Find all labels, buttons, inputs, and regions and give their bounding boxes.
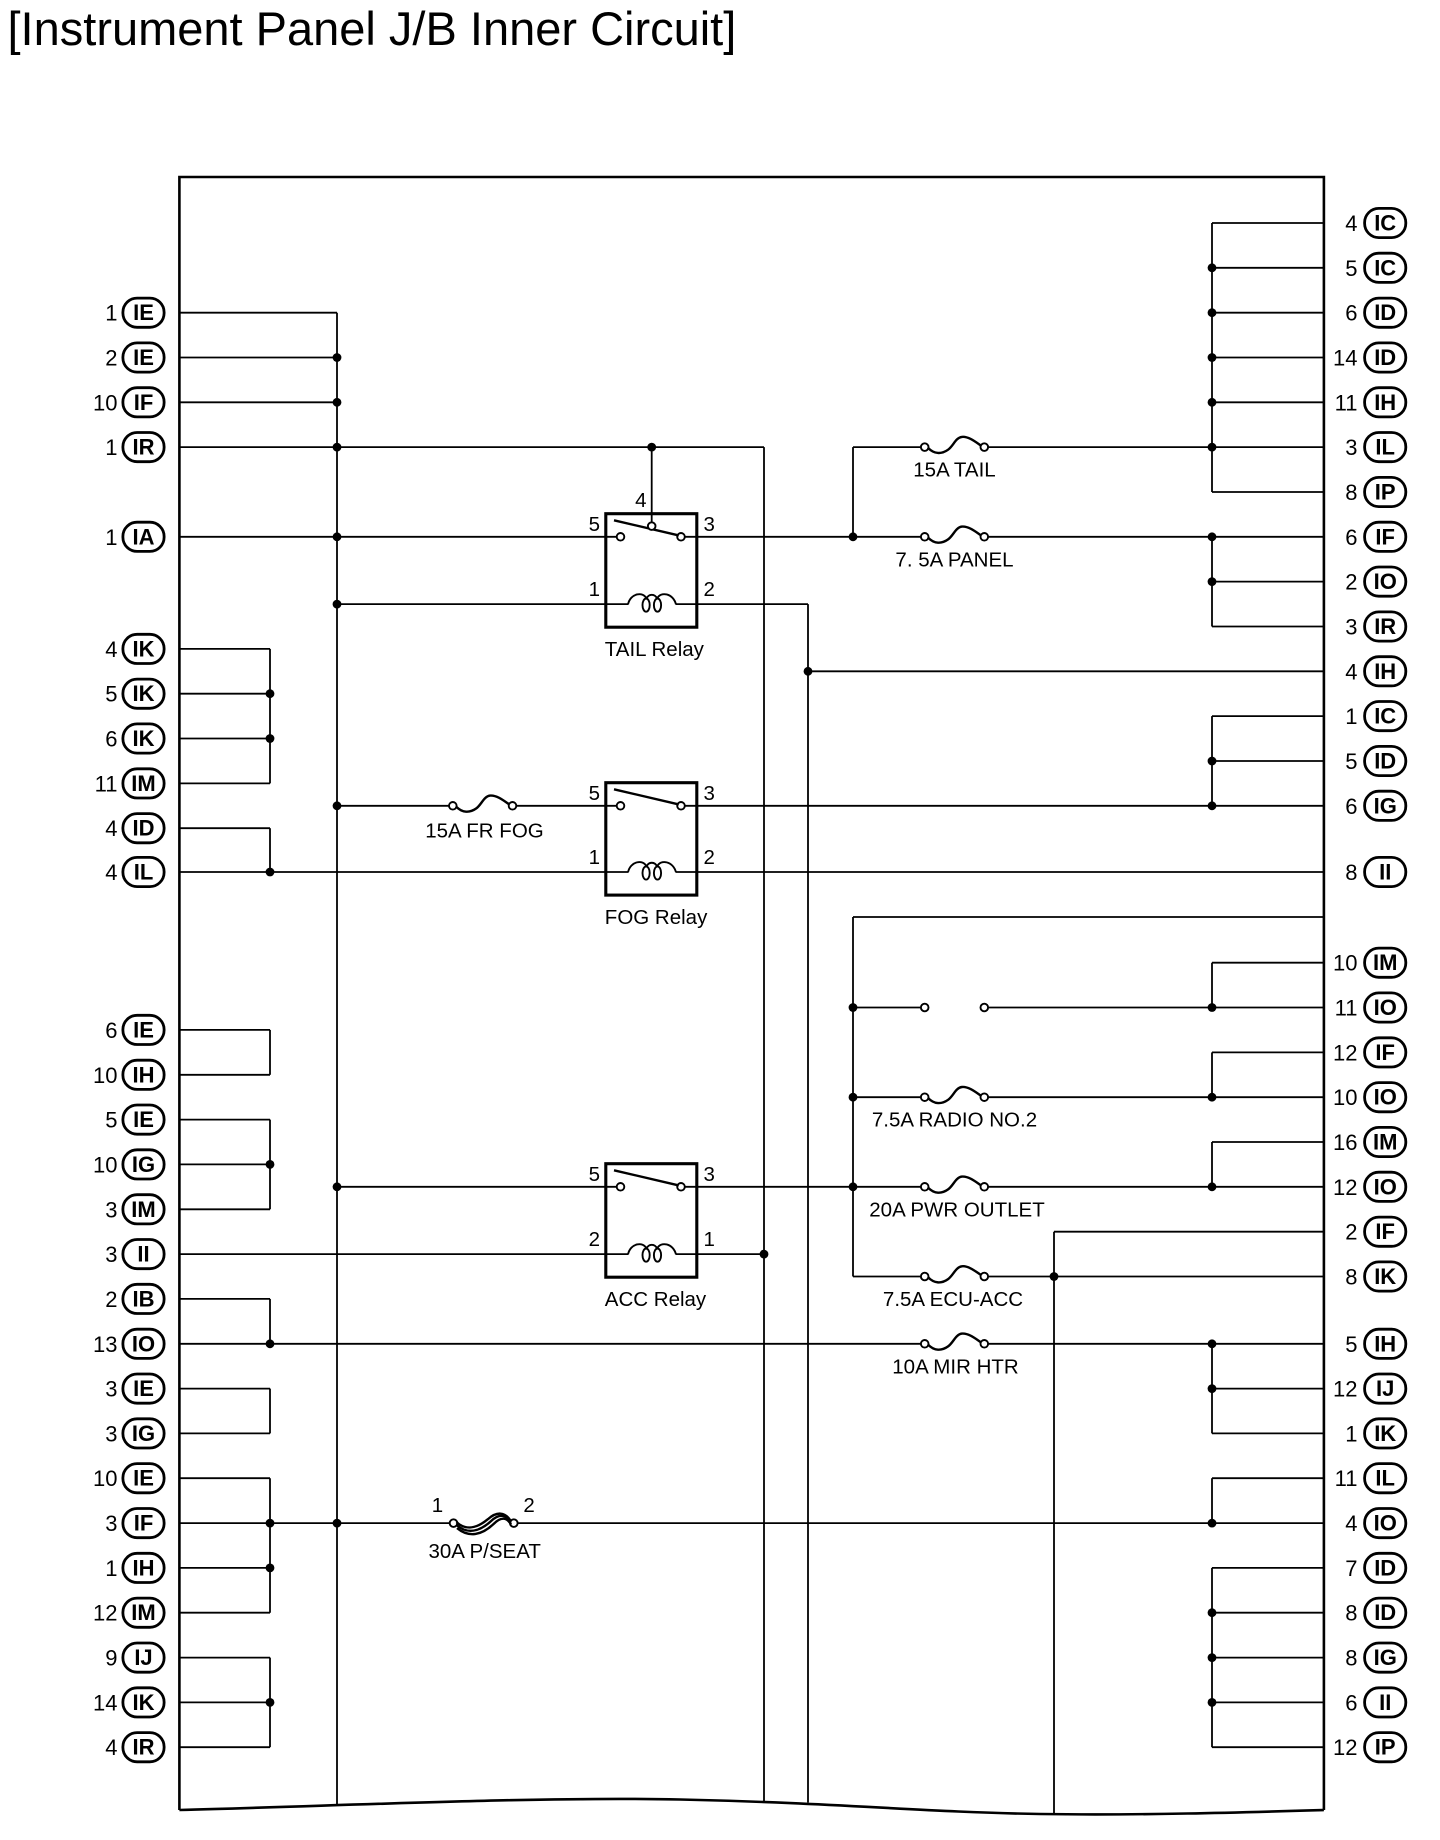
svg-text:2: 2 <box>1345 1220 1357 1245</box>
junction x270 y1567.9 <box>266 1564 275 1573</box>
svg-text:3: 3 <box>1345 615 1357 640</box>
right pin 4 IH <box>1345 657 1406 686</box>
wire 14 ID stub <box>1212 357 1324 359</box>
wire FOG relay pin3 to 6 IG pin <box>685 805 1324 807</box>
left pin 3 IG <box>105 1419 164 1448</box>
svg-text:IH: IH <box>1374 390 1396 415</box>
left pin 3 II <box>105 1240 164 1269</box>
svg-text:1: 1 <box>1345 704 1357 729</box>
svg-text:14: 14 <box>93 1690 117 1715</box>
junction x1212 y1523.1 <box>1208 1519 1217 1528</box>
wire 10 IF row <box>179 401 337 403</box>
wire 8 ID stub <box>1212 1612 1324 1614</box>
wire 9 IJ stub <box>179 1657 270 1659</box>
relay ACC (K3) <box>589 1163 715 1311</box>
junction x1212 y581.6 <box>1208 577 1217 586</box>
wire 11 IH stub <box>1212 401 1324 403</box>
bus right 5IH-1IK <box>1211 1344 1213 1434</box>
svg-text:ID: ID <box>1374 300 1396 325</box>
wire 1 IC stub <box>1212 715 1324 717</box>
right pin 12 IF <box>1333 1038 1406 1067</box>
wire 4 ID stub <box>179 827 270 829</box>
svg-text:2: 2 <box>704 578 715 601</box>
svg-text:IC: IC <box>1374 704 1396 729</box>
wire 1 IR / TAIL relay pin4 feed row <box>179 446 764 448</box>
svg-text:4: 4 <box>1345 1511 1357 1536</box>
wire 3 IM stub <box>179 1208 270 1210</box>
diagram title <box>8 2 737 55</box>
svg-text:ID: ID <box>1374 1555 1396 1580</box>
svg-text:4: 4 <box>635 489 646 512</box>
right pin 7 ID <box>1345 1553 1406 1582</box>
svg-text:4: 4 <box>1345 211 1357 236</box>
left pin 1 IH <box>105 1553 164 1582</box>
wire 3 IG stub <box>179 1432 270 1434</box>
svg-text:3: 3 <box>1345 435 1357 460</box>
fuse 10A MIR HTR <box>892 1334 1018 1379</box>
left pin 10 IF <box>93 388 164 417</box>
junction x270 y872.0 <box>266 868 275 877</box>
svg-text:4: 4 <box>105 1735 117 1760</box>
svg-text:IA: IA <box>133 524 155 549</box>
right pin 6 IF <box>1345 522 1406 551</box>
svg-text:3: 3 <box>704 513 715 536</box>
junction x1212 y447.1 <box>1208 443 1217 452</box>
svg-text:IH: IH <box>133 1555 155 1580</box>
svg-text:IK: IK <box>133 636 155 661</box>
junction x1212 y536.8 <box>1208 532 1217 541</box>
svg-text:IE: IE <box>133 345 154 370</box>
svg-text:IF: IF <box>134 390 154 415</box>
svg-text:1: 1 <box>105 301 117 326</box>
wire FOG relay coil to 8 II pin <box>676 871 1324 873</box>
bus right 16IM-12IO <box>1211 1142 1213 1187</box>
svg-text:IG: IG <box>132 1421 155 1446</box>
svg-text:13: 13 <box>93 1332 117 1357</box>
right pin 12 IO <box>1333 1172 1406 1201</box>
svg-text:8: 8 <box>1345 1601 1357 1626</box>
left pin 5 IE <box>105 1105 164 1134</box>
svg-text:IG: IG <box>132 1152 155 1177</box>
svg-text:10: 10 <box>1333 951 1357 976</box>
wire 2 IE row <box>179 357 337 359</box>
right pin 11 IO <box>1335 993 1406 1022</box>
svg-text:3: 3 <box>704 782 715 805</box>
svg-text:II: II <box>1379 1690 1391 1715</box>
svg-text:1: 1 <box>105 525 117 550</box>
wire 1 IE row <box>179 312 337 314</box>
junction x337 y357.5 <box>333 353 342 362</box>
right pin 5 IH <box>1345 1329 1406 1358</box>
bus stub 2IB-13IO <box>269 1299 271 1344</box>
svg-text:8: 8 <box>1345 860 1357 885</box>
svg-text:20A PWR OUTLET: 20A PWR OUTLET <box>869 1198 1045 1221</box>
svg-text:11: 11 <box>1335 1466 1358 1491</box>
junction x337 y805.8 <box>333 801 342 810</box>
svg-text:IH: IH <box>1374 1331 1396 1356</box>
right pin 1 IC <box>1345 702 1406 731</box>
svg-text:IE: IE <box>133 1466 154 1491</box>
bus right 1IC-6IG <box>1211 716 1213 806</box>
junction x1054 y1276.5 <box>1050 1272 1059 1281</box>
svg-text:IK: IK <box>1374 1421 1396 1446</box>
svg-text:IH: IH <box>1374 659 1396 684</box>
svg-text:7. 5A PANEL: 7. 5A PANEL <box>895 548 1013 571</box>
svg-text:4: 4 <box>105 816 117 841</box>
svg-text:3: 3 <box>105 1377 117 1402</box>
svg-text:6: 6 <box>1345 1690 1357 1715</box>
wire 10A MIR HTR to 5 IH pin <box>988 1343 1324 1345</box>
junction x853 y1097.2 <box>849 1093 858 1102</box>
wire 14 IK stub <box>179 1701 270 1703</box>
bus stub 5IE-3IM <box>269 1120 271 1210</box>
right pin 8 II <box>1345 857 1406 886</box>
svg-text:IE: IE <box>133 300 154 325</box>
junction x1212 y1007.5 <box>1208 1003 1217 1012</box>
wire 1 IH stub <box>179 1567 270 1569</box>
right pin 8 IP <box>1345 477 1406 506</box>
junction x1212 y1657.6 <box>1208 1653 1217 1662</box>
junction x1212 y357.5 <box>1208 353 1217 362</box>
svg-text:IK: IK <box>133 681 155 706</box>
fuse 15A FR FOG <box>425 796 543 843</box>
junction x853 y1186.8 <box>849 1182 858 1191</box>
svg-text:ACC Relay: ACC Relay <box>605 1288 707 1311</box>
bus right 11IL-4IO <box>1211 1478 1213 1523</box>
svg-text:7: 7 <box>1345 1556 1357 1581</box>
right pin 6 ID <box>1345 298 1406 327</box>
svg-text:IF: IF <box>1375 1040 1395 1065</box>
svg-text:1: 1 <box>105 435 117 460</box>
svg-text:IO: IO <box>132 1331 155 1356</box>
svg-text:3: 3 <box>704 1163 715 1186</box>
wire 15A FR FOG to FOG relay pin5 <box>516 805 616 807</box>
junction x1212 y1702.4 <box>1208 1698 1217 1707</box>
wire TAIL relay coil pin2 out <box>676 603 808 605</box>
bus left main x337 <box>336 313 338 1806</box>
junction x1212 y761.0 <box>1208 757 1217 766</box>
svg-text:5: 5 <box>589 1163 600 1186</box>
svg-text:IM: IM <box>131 771 155 796</box>
wire 1 IK row <box>1212 1432 1324 1434</box>
svg-text:7.5A ECU-ACC: 7.5A ECU-ACC <box>883 1288 1023 1311</box>
svg-text:IO: IO <box>1374 1085 1397 1110</box>
bus vertical x1054 <box>1053 1232 1055 1814</box>
wire 4 IR stub <box>179 1746 270 1748</box>
wire TAIL relay coil pin1 feed <box>337 603 628 605</box>
bus stub 10IE-12IM <box>269 1478 271 1613</box>
wire 2 IB stub <box>179 1298 270 1300</box>
wire ACC relay pin5 feed <box>337 1186 617 1188</box>
junction x1212 y267.8 <box>1208 263 1217 272</box>
wire 15A TAIL to 3 IL pin <box>988 446 1324 448</box>
wire 10 IG stub <box>179 1163 270 1165</box>
svg-text:9: 9 <box>105 1646 117 1671</box>
bus right 6IF-3IR <box>1211 537 1213 627</box>
svg-text:2: 2 <box>589 1228 600 1251</box>
junction x1212 y402.3 <box>1208 398 1217 407</box>
right pin 10 IM <box>1333 948 1406 977</box>
svg-text:11: 11 <box>1335 390 1358 415</box>
right pin 3 IL <box>1345 433 1406 462</box>
junction x764 y1254.1 <box>760 1250 769 1259</box>
svg-text:IR: IR <box>133 435 155 460</box>
wire 2 IF row <box>1054 1231 1324 1233</box>
bus vertical x764 <box>763 447 765 1801</box>
svg-text:FOG Relay: FOG Relay <box>605 906 708 929</box>
svg-text:IJ: IJ <box>1376 1376 1394 1401</box>
bus stub 4IK-11IM <box>269 649 271 784</box>
wire 7.5A RADIO NO.2 feed <box>853 1096 921 1098</box>
wire 8 IP stub <box>1212 491 1324 493</box>
fuse 7.5A PANEL <box>895 527 1013 572</box>
wire 6 II stub <box>1212 1701 1324 1703</box>
wire 15A TAIL fuse riser <box>852 447 854 537</box>
left pin 10 IH <box>93 1060 164 1089</box>
junction x337 y402.3 <box>333 398 342 407</box>
svg-text:6: 6 <box>1345 301 1357 326</box>
svg-text:IC: IC <box>1374 255 1396 280</box>
wire 7.5A PANEL to 6 IF pin <box>988 536 1324 538</box>
left pin 6 IK <box>105 724 164 753</box>
junction x1212 y805.8 <box>1208 801 1217 810</box>
svg-text:1: 1 <box>1345 1421 1357 1446</box>
svg-text:IK: IK <box>1374 1264 1396 1289</box>
left pin 13 IO <box>93 1329 164 1358</box>
wire 7 ID stub <box>1212 1567 1324 1569</box>
svg-text:IB: IB <box>133 1286 155 1311</box>
wire 7.5A ECU-ACC to 8 IK pin <box>988 1276 1324 1278</box>
junction x853 y536.8 <box>849 532 858 541</box>
left pin 4 IK <box>105 634 164 663</box>
left pin 1 IR <box>105 433 164 462</box>
svg-text:IG: IG <box>1374 793 1397 818</box>
left pin 3 IF <box>105 1509 164 1538</box>
wire 11 IL row <box>1212 1477 1324 1479</box>
svg-text:12: 12 <box>93 1601 117 1626</box>
wire 20A PWR OUTLET to 12 IO pin <box>988 1186 1324 1188</box>
wire open fuse slot to 11 IO pin <box>988 1007 1324 1009</box>
svg-text:IR: IR <box>133 1735 155 1760</box>
left pin 3 IE <box>105 1374 164 1403</box>
svg-text:TAIL Relay: TAIL Relay <box>605 638 705 661</box>
junction x270 y738.5 <box>266 734 275 743</box>
left pin 4 IL <box>105 857 164 886</box>
wire 5 ID stub <box>1212 760 1324 762</box>
right pin 2 IF <box>1345 1217 1406 1246</box>
svg-text:ID: ID <box>1374 345 1396 370</box>
svg-text:1: 1 <box>589 846 600 869</box>
svg-text:2: 2 <box>523 1494 534 1517</box>
svg-text:2: 2 <box>704 846 715 869</box>
wire TAIL relay pin4 drop <box>651 447 653 522</box>
fusible link 30A P/SEAT <box>428 1494 541 1563</box>
svg-text:15A FR FOG: 15A FR FOG <box>425 819 543 842</box>
svg-text:IG: IG <box>1374 1645 1397 1670</box>
junction x337 y447.1 <box>333 443 342 452</box>
bus right 10IM-11IO <box>1211 963 1213 1008</box>
svg-text:IP: IP <box>1375 480 1396 505</box>
wire 10 IE stub <box>179 1477 270 1479</box>
left pin 4 ID <box>105 814 164 843</box>
svg-text:11: 11 <box>1335 996 1358 1021</box>
left pin 14 IK <box>93 1688 164 1717</box>
wire 1 IA to TAIL relay pin5 <box>179 536 616 538</box>
junction x337 y1523.1 <box>333 1519 342 1528</box>
right pin 4 IO <box>1345 1509 1406 1538</box>
wire 2 IO stub <box>1212 581 1324 583</box>
wire 3 II to ACC relay coil <box>179 1253 628 1255</box>
bus stub 6IE-10IH <box>269 1030 271 1075</box>
svg-text:4: 4 <box>105 637 117 662</box>
wire 30A P/SEAT to 4 IO pin <box>518 1522 1324 1524</box>
junction x808 y671.3 <box>804 667 813 676</box>
right pin 14 ID <box>1333 343 1406 372</box>
bus stub 4ID-4IL <box>269 828 271 872</box>
right pin 16 IM <box>1333 1127 1406 1156</box>
svg-text:10: 10 <box>1333 1085 1357 1110</box>
svg-text:II: II <box>137 1242 149 1267</box>
right pin 5 IC <box>1345 253 1406 282</box>
svg-text:5: 5 <box>1345 749 1357 774</box>
wire 5 IK stub <box>179 693 270 695</box>
svg-text:1: 1 <box>432 1494 443 1517</box>
junction x853 y1007.5 <box>849 1003 858 1012</box>
svg-text:2: 2 <box>105 1287 117 1312</box>
bus vertical x808 <box>807 604 809 1802</box>
wire 11 IM stub <box>179 782 270 784</box>
svg-text:ID: ID <box>1374 1600 1396 1625</box>
svg-text:3: 3 <box>105 1197 117 1222</box>
J/B box outline <box>179 177 1324 1814</box>
wire 16 IM row <box>1212 1141 1324 1143</box>
svg-text:10: 10 <box>93 1466 117 1491</box>
svg-text:12: 12 <box>1333 1377 1357 1402</box>
left pin 6 IE <box>105 1015 164 1044</box>
svg-text:IO: IO <box>1374 1174 1397 1199</box>
wire 15A FR FOG feed <box>337 805 449 807</box>
wire 3 IR stub <box>1212 626 1324 628</box>
relay TAIL (K1) <box>589 489 715 661</box>
wire 7.5A ECU-ACC feed <box>853 1276 921 1278</box>
svg-text:IM: IM <box>131 1197 155 1222</box>
svg-text:5: 5 <box>589 513 600 536</box>
svg-text:7.5A RADIO NO.2: 7.5A RADIO NO.2 <box>872 1109 1037 1132</box>
svg-text:IH: IH <box>133 1062 155 1087</box>
svg-text:IM: IM <box>1373 1130 1397 1155</box>
wire ACC relay coil to bus <box>676 1253 764 1255</box>
svg-text:IE: IE <box>133 1376 154 1401</box>
wire ACC section feed top <box>853 916 1324 918</box>
svg-text:3: 3 <box>105 1421 117 1446</box>
wire 4 IK stub <box>179 648 270 650</box>
svg-text:15A TAIL: 15A TAIL <box>913 459 995 482</box>
junction x270 y693.7 <box>266 689 275 698</box>
svg-text:IL: IL <box>134 860 154 885</box>
svg-text:IK: IK <box>133 726 155 751</box>
svg-text:IO: IO <box>1374 569 1397 594</box>
svg-text:5: 5 <box>589 782 600 805</box>
svg-text:2: 2 <box>105 346 117 371</box>
wire 12 IM stub <box>179 1612 270 1614</box>
svg-text:14: 14 <box>1333 346 1357 371</box>
svg-text:IP: IP <box>1375 1735 1396 1760</box>
svg-text:IF: IF <box>134 1511 154 1536</box>
wire 12 IP stub <box>1212 1746 1324 1748</box>
junction x337 y536.8 <box>333 532 342 541</box>
svg-text:II: II <box>1379 860 1391 885</box>
junction x337 y1186.8 <box>333 1182 342 1191</box>
left pin 2 IE <box>105 343 164 372</box>
right pin 12 IJ <box>1333 1374 1406 1403</box>
left pin 1 IE <box>105 298 164 327</box>
svg-text:5: 5 <box>1345 256 1357 281</box>
svg-text:10: 10 <box>93 1063 117 1088</box>
bus stub 9IJ-4IR <box>269 1658 271 1748</box>
right pin 6 IG <box>1345 791 1406 820</box>
bus right 7ID-12IP <box>1211 1568 1213 1747</box>
right pin 2 IO <box>1345 567 1406 596</box>
right pin 3 IR <box>1345 612 1406 641</box>
svg-text:4: 4 <box>1345 659 1357 684</box>
bus right 4IC-8IP <box>1211 223 1213 492</box>
wire 3 IF to 30A P/SEAT <box>179 1522 449 1524</box>
svg-text:5: 5 <box>1345 1332 1357 1357</box>
junction x1212 y312.7 <box>1208 308 1217 317</box>
svg-text:IM: IM <box>131 1600 155 1625</box>
wire 4 IL to FOG relay coil <box>179 871 628 873</box>
svg-text:1: 1 <box>589 578 600 601</box>
svg-text:8: 8 <box>1345 1265 1357 1290</box>
right pin 1 IK <box>1345 1419 1406 1448</box>
wire ACC relay pin3 to 20A PWR OUTLET <box>685 1186 921 1188</box>
left pin 1 IA <box>105 522 164 551</box>
junction x1212 y1388.6 <box>1208 1384 1217 1393</box>
right pin 6 II <box>1345 1688 1406 1717</box>
junction x1212 y1186.8 <box>1208 1182 1217 1191</box>
svg-text:4: 4 <box>105 860 117 885</box>
svg-text:10A MIR HTR: 10A MIR HTR <box>892 1355 1018 1378</box>
svg-text:3: 3 <box>105 1511 117 1536</box>
svg-text:5: 5 <box>105 1108 117 1133</box>
svg-text:6: 6 <box>1345 525 1357 550</box>
wire 12 IF row <box>1212 1051 1324 1053</box>
wire 6 IE stub <box>179 1029 270 1031</box>
junction x270 y1523.1 <box>266 1519 275 1528</box>
right pin 11 IL <box>1335 1464 1406 1493</box>
wire 12 IJ row <box>1212 1388 1324 1390</box>
svg-text:IO: IO <box>1374 1511 1397 1536</box>
svg-text:IM: IM <box>1373 950 1397 975</box>
left pin 4 IR <box>105 1733 164 1762</box>
svg-text:IL: IL <box>1375 435 1395 460</box>
svg-text:8: 8 <box>1345 480 1357 505</box>
wire 10 IH stub <box>179 1074 270 1076</box>
fuse 7.5A ECU-ACC <box>883 1266 1023 1311</box>
wire 4 IC stub <box>1212 222 1324 224</box>
svg-text:10: 10 <box>93 390 117 415</box>
fuse 20A PWR OUTLET <box>869 1177 1045 1222</box>
svg-text:IF: IF <box>1375 524 1395 549</box>
left pin 3 IM <box>105 1195 164 1224</box>
svg-text:IR: IR <box>1374 614 1396 639</box>
right pin 8 IK <box>1345 1262 1406 1291</box>
svg-text:12: 12 <box>1333 1040 1357 1065</box>
svg-text:IF: IF <box>1375 1219 1395 1244</box>
junction x651.7 y447.1 <box>647 443 656 452</box>
svg-text:30A P/SEAT: 30A P/SEAT <box>428 1540 541 1563</box>
right pin 5 ID <box>1345 746 1406 775</box>
